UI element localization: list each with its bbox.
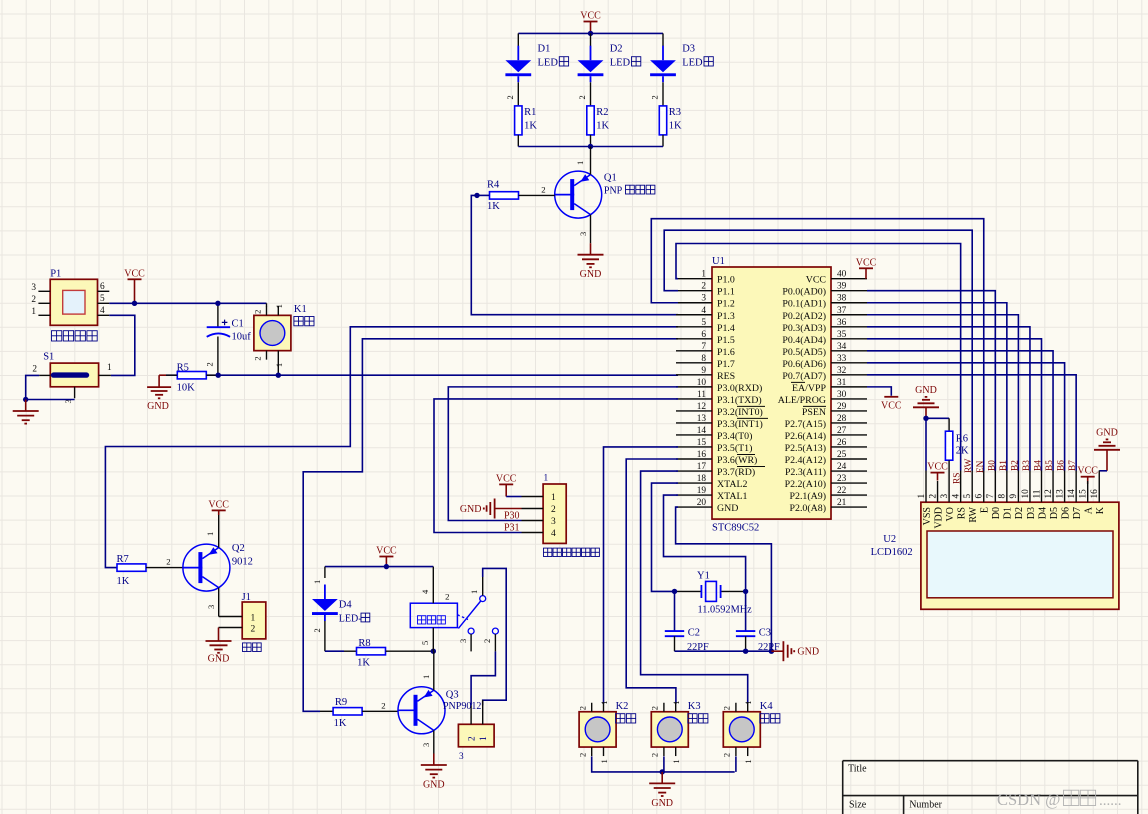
svg-text:2: 2 [32, 365, 37, 375]
net label P30 [504, 511, 520, 522]
svg-text:C1: C1 [232, 319, 244, 330]
power VCC (relay) [376, 546, 397, 567]
svg-text:2: 2 [701, 282, 706, 292]
net label B2 [1010, 460, 1020, 471]
net label RW [964, 458, 974, 473]
svg-text:VCC: VCC [1077, 466, 1098, 477]
svg-text:P3.6(WR): P3.6(WR) [717, 455, 757, 466]
svg-text:LED-: LED- [339, 613, 362, 624]
svg-text:R8: R8 [358, 638, 370, 649]
svg-text:VCC: VCC [376, 546, 397, 557]
wire C2/C3 bottoms [675, 650, 772, 652]
svg-text:VSS: VSS [922, 507, 933, 525]
wire VSS node down [925, 418, 927, 470]
svg-text:1: 1 [575, 161, 585, 165]
wire P1 pin4 to S1 pin1 [109, 315, 135, 375]
svg-text:P0.2(AD2): P0.2(AD2) [782, 311, 826, 322]
power VCC at LCD A [1077, 466, 1098, 484]
svg-text:9: 9 [1009, 494, 1019, 499]
svg-text:GND: GND [915, 385, 937, 396]
svg-text:2: 2 [577, 95, 587, 99]
svg-text:19: 19 [697, 486, 707, 496]
svg-text:2: 2 [505, 95, 515, 99]
svg-text:P1.2: P1.2 [717, 299, 735, 310]
svg-text:U2: U2 [883, 534, 896, 545]
svg-text:3: 3 [551, 517, 556, 527]
ground below Q3 [421, 754, 447, 791]
LED D4 red [312, 567, 370, 652]
svg-text:P3.0(RXD): P3.0(RXD) [717, 383, 762, 394]
junction C1 top [215, 301, 220, 306]
wire crystal right to C3 [745, 591, 747, 631]
svg-text:LED: LED [682, 58, 703, 69]
wire U1 pin11 to P31 [434, 399, 678, 533]
crystal Y1 11.0592MHz [675, 571, 753, 616]
svg-text:D0: D0 [991, 507, 1002, 519]
svg-text:10: 10 [697, 378, 707, 388]
svg-text:1: 1 [701, 270, 706, 280]
svg-text:2: 2 [578, 753, 588, 757]
svg-text:12: 12 [1044, 489, 1054, 499]
svg-text:B7: B7 [1068, 460, 1078, 471]
svg-text:EA/VPP: EA/VPP [792, 383, 827, 394]
svg-text:1K: 1K [117, 576, 130, 587]
svg-text:10K: 10K [177, 382, 196, 393]
svg-text:1: 1 [421, 675, 431, 679]
svg-text:R4: R4 [487, 180, 500, 191]
svg-text:D7: D7 [1072, 507, 1083, 519]
svg-text:B3: B3 [1022, 460, 1032, 471]
wire U1 pin3 to LCD EN [651, 219, 983, 471]
svg-text:C3: C3 [759, 628, 771, 639]
button K3 [650, 701, 708, 764]
svg-text:1: 1 [107, 363, 112, 373]
svg-text:K3: K3 [688, 701, 701, 712]
ground below Q1 [578, 243, 604, 280]
resistor R1 1K [515, 106, 538, 147]
wire U1 P0.4 to LCD D4 [867, 339, 1042, 471]
power VCC (voice module) [496, 473, 522, 496]
wire U1 P0.5 to LCD D5 [867, 351, 1053, 471]
svg-text:36: 36 [837, 318, 847, 328]
svg-text:VCC: VCC [881, 401, 902, 412]
LED D1 [505, 33, 569, 106]
capacitor C2 22PF [665, 628, 709, 654]
button K1 [252, 303, 314, 375]
power VCC at U1 pin31 (inverted) [881, 397, 902, 412]
svg-text:20: 20 [697, 498, 707, 508]
junction crystal right [743, 589, 748, 594]
svg-text:GND: GND [717, 503, 738, 514]
connector P1 (self-lock switch) [31, 269, 109, 342]
wire K3 bottom [663, 756, 665, 772]
svg-text:P1.3: P1.3 [717, 311, 735, 322]
svg-text:1: 1 [479, 736, 489, 741]
wire U1 pin19 (XTAL1) to crystal [664, 495, 746, 591]
svg-text:R7: R7 [117, 554, 129, 565]
svg-text:2: 2 [251, 625, 256, 635]
wire VSS node to R6 [926, 417, 949, 419]
svg-text:2: 2 [650, 706, 660, 710]
svg-text:35: 35 [837, 330, 847, 340]
svg-text:6: 6 [100, 282, 105, 292]
svg-text:18: 18 [697, 474, 707, 484]
svg-text:GND: GND [208, 654, 230, 665]
wire relay contact 2 to connector pin2 [471, 651, 495, 705]
wire relay contact 1 to connector pin1 [483, 568, 507, 705]
svg-text:GND: GND [147, 401, 169, 412]
ground below buttons [649, 772, 675, 809]
svg-text:4: 4 [551, 529, 556, 539]
svg-text:16: 16 [1090, 489, 1100, 499]
svg-text:R6: R6 [956, 434, 968, 445]
svg-text:4: 4 [701, 306, 706, 316]
svg-text:21: 21 [837, 498, 847, 508]
ground above LCD K (inverted) [1094, 427, 1120, 470]
svg-text:8: 8 [998, 494, 1008, 499]
svg-text:24: 24 [837, 462, 847, 472]
svg-text:14: 14 [697, 426, 707, 436]
svg-text:1: 1 [743, 759, 753, 763]
svg-text:3: 3 [578, 232, 588, 236]
svg-text:P1.1: P1.1 [717, 287, 735, 298]
IC U1 STC89C52 [676, 256, 867, 534]
svg-text:P2.1(A9): P2.1(A9) [790, 491, 826, 502]
svg-text:2: 2 [312, 628, 322, 632]
svg-text:P2.5(A13): P2.5(A13) [785, 443, 826, 454]
svg-text:B0: B0 [987, 460, 997, 471]
svg-text:GND: GND [651, 798, 673, 809]
svg-text:2: 2 [205, 362, 215, 366]
svg-text:ALE/PROG: ALE/PROG [778, 395, 826, 406]
svg-text:9: 9 [701, 366, 706, 376]
svg-text:2: 2 [650, 95, 660, 99]
ground at R5 [147, 375, 171, 412]
svg-text:1: 1 [671, 701, 681, 705]
svg-text:J1: J1 [242, 592, 251, 603]
junction crystal left [672, 589, 677, 594]
svg-text:A: A [1084, 506, 1095, 514]
wire U1 pin10 to P30 [448, 387, 678, 521]
capacitor C1 10uf [205, 303, 252, 375]
ground at J1 pin2 [206, 628, 232, 665]
ground above LCD VSS (inverted) [913, 385, 939, 419]
wire U1 P0.3 to LCD D3 [867, 327, 1030, 471]
svg-text:8: 8 [701, 354, 706, 364]
net label P31 [504, 523, 520, 534]
svg-text:15: 15 [1079, 489, 1089, 499]
svg-text:B5: B5 [1045, 460, 1055, 471]
svg-text:6: 6 [701, 330, 706, 340]
wire U1 pin5 to R7 [105, 327, 678, 568]
ground below S1 [13, 400, 39, 424]
svg-text:29: 29 [837, 402, 847, 412]
svg-text:P3.1(TXD): P3.1(TXD) [717, 395, 762, 406]
svg-text:7: 7 [986, 494, 996, 499]
svg-text:D6: D6 [1060, 507, 1071, 519]
svg-text:15: 15 [697, 438, 707, 448]
svg-text:K2: K2 [616, 701, 629, 712]
svg-text:10: 10 [1021, 489, 1031, 499]
svg-text:5: 5 [420, 641, 430, 645]
svg-text:3: 3 [458, 639, 468, 643]
svg-text:Q1: Q1 [604, 173, 617, 184]
svg-text:11.0592MHz: 11.0592MHz [698, 605, 753, 616]
svg-text:2: 2 [928, 494, 938, 499]
svg-text:VCC: VCC [580, 11, 601, 22]
svg-text:P0.7(AD7): P0.7(AD7) [782, 371, 826, 382]
wire U1 P0.0 to LCD D0 [867, 291, 995, 471]
svg-text:1: 1 [251, 614, 256, 624]
LCD U2 LCD1602 [871, 471, 1119, 610]
svg-text:12: 12 [697, 402, 707, 412]
svg-text:1K: 1K [596, 121, 609, 132]
svg-text:1: 1 [544, 474, 549, 484]
svg-text:XTAL1: XTAL1 [717, 491, 748, 502]
svg-text:23: 23 [837, 474, 847, 484]
svg-text:P1.0: P1.0 [717, 275, 735, 286]
net label EN [976, 460, 986, 473]
connector J1 (fan) [219, 592, 266, 652]
svg-text:GND: GND [460, 504, 482, 515]
svg-text:P2.2(A10): P2.2(A10) [785, 479, 826, 490]
svg-text:2: 2 [722, 753, 732, 757]
ground (voice module, rotated) [460, 499, 522, 519]
svg-text:10uf: 10uf [232, 332, 252, 343]
svg-text:C2: C2 [688, 628, 700, 639]
svg-text:1: 1 [917, 494, 927, 499]
svg-text:GND: GND [1096, 427, 1118, 438]
svg-text:D1: D1 [538, 44, 551, 55]
svg-text:P2.0(A8): P2.0(A8) [790, 503, 826, 514]
wire U1 pin16 to K3 [626, 459, 678, 704]
svg-text:5: 5 [963, 494, 973, 499]
svg-text:R9: R9 [335, 697, 347, 708]
switch S1 [32, 352, 112, 404]
svg-text:LED: LED [610, 58, 631, 69]
power VCC at LCD VDD [927, 462, 948, 481]
net label B0 [987, 460, 997, 471]
svg-text:1K: 1K [357, 658, 370, 669]
svg-text:P31: P31 [504, 523, 520, 534]
svg-text:2: 2 [578, 706, 588, 710]
svg-text:K4: K4 [760, 701, 774, 712]
relay (coil) [410, 567, 468, 652]
svg-text:VCC: VCC [806, 275, 827, 286]
wire U1 P0.7 to LCD D7 [867, 375, 1076, 471]
svg-text:Q2: Q2 [232, 543, 245, 554]
transistor Q1 PNP [555, 147, 655, 244]
wire U1 pin15 to K2 [604, 447, 679, 704]
svg-text:D1: D1 [1003, 507, 1014, 519]
svg-text:5: 5 [701, 318, 706, 328]
svg-text:1K: 1K [487, 201, 500, 212]
svg-text:9012: 9012 [232, 557, 253, 568]
svg-text:3: 3 [421, 743, 431, 747]
junction VCC rail [384, 564, 389, 569]
svg-text:D2: D2 [1014, 507, 1025, 519]
svg-text:2: 2 [381, 700, 385, 710]
svg-text:1: 1 [312, 580, 322, 584]
wire D4 to R8 [325, 650, 344, 652]
junction at R4 input [474, 193, 479, 198]
svg-text:U1: U1 [712, 256, 725, 267]
svg-text:B1: B1 [999, 460, 1009, 471]
svg-text:LED: LED [538, 58, 559, 69]
connector U3 voice recognition module [522, 474, 600, 557]
svg-text:40: 40 [837, 270, 847, 280]
svg-text:2: 2 [166, 557, 170, 567]
power VCC above Q2 [208, 499, 229, 515]
resistor R3 1K [659, 106, 682, 147]
wire VCC to LED tops [518, 32, 663, 34]
svg-text:1: 1 [31, 307, 36, 317]
junction C3 bottom [743, 649, 748, 654]
svg-text:R5: R5 [177, 363, 189, 374]
svg-text:VO: VO [945, 507, 956, 521]
svg-text:D4: D4 [339, 599, 353, 610]
svg-text:R1: R1 [524, 107, 536, 118]
svg-text:4: 4 [100, 306, 105, 316]
svg-text:S1: S1 [43, 352, 54, 363]
wire K2 bottom [592, 756, 735, 772]
wire U1 pin17 to K4 [641, 471, 748, 704]
svg-text:2: 2 [468, 736, 478, 741]
svg-text:1: 1 [599, 701, 609, 705]
svg-text:R3: R3 [669, 107, 681, 118]
wire U1 pin31 to VCC [867, 387, 891, 396]
svg-text:1: 1 [551, 493, 556, 503]
svg-text:2: 2 [252, 310, 262, 314]
LED D2 [577, 33, 641, 106]
svg-text:25: 25 [837, 450, 847, 460]
resistor R8 1K [344, 638, 433, 669]
net label B1 [999, 460, 1009, 471]
svg-text:Number: Number [909, 800, 942, 811]
junction S1 ground [23, 397, 28, 402]
svg-text:VCC: VCC [208, 499, 229, 510]
svg-text:Size: Size [849, 800, 867, 811]
button K2 [578, 701, 636, 764]
svg-text:P3.3(INT1): P3.3(INT1) [717, 419, 763, 430]
svg-text:P0.6(AD6): P0.6(AD6) [782, 359, 826, 370]
wire VCC rail D4/relay [325, 566, 433, 568]
svg-text:GND: GND [580, 269, 602, 280]
svg-text:P1.7: P1.7 [717, 359, 735, 370]
wire U1 pin1 to LCD RS [676, 244, 961, 471]
svg-text:P0.5(AD5): P0.5(AD5) [782, 347, 826, 358]
svg-text:P30: P30 [504, 511, 520, 522]
svg-text:......: ...... [1099, 793, 1122, 809]
svg-text:E: E [980, 507, 991, 513]
svg-text:2: 2 [252, 356, 262, 360]
svg-text:P2.7(A15): P2.7(A15) [785, 419, 826, 430]
svg-text:Q3: Q3 [446, 689, 459, 700]
junction at Q1 collector node [588, 144, 593, 149]
svg-text:D5: D5 [1049, 507, 1060, 519]
svg-text:P3.4(T0): P3.4(T0) [717, 431, 752, 442]
wire U1 P0.1 to LCD D1 [867, 303, 1007, 471]
svg-text:14: 14 [1067, 489, 1077, 499]
svg-text:B4: B4 [1034, 460, 1044, 471]
wire U1 P0.2 to LCD D2 [867, 315, 1018, 471]
power VCC (P1 area) [124, 268, 145, 303]
svg-text:P0.1(AD1): P0.1(AD1) [782, 299, 826, 310]
svg-text:5: 5 [100, 294, 105, 304]
svg-text:16: 16 [697, 450, 707, 460]
svg-text:R2: R2 [596, 107, 608, 118]
svg-text:3: 3 [31, 283, 36, 293]
junction VCC [132, 301, 137, 306]
button K4 [722, 701, 780, 764]
svg-text:K: K [1095, 506, 1106, 514]
svg-text:P2.3(A11): P2.3(A11) [785, 467, 826, 478]
svg-text:1: 1 [274, 304, 284, 308]
transistor Q3 PNP9012 [398, 651, 481, 753]
resistor R9 1K [320, 697, 398, 729]
wire K4 bottom [735, 756, 737, 772]
svg-text:VCC: VCC [124, 268, 145, 279]
svg-text:P0.3(AD3): P0.3(AD3) [782, 323, 826, 334]
net label B5 [1045, 460, 1055, 471]
wire P1 pin5 to VCC/C1/K1 [109, 302, 266, 304]
svg-text:D2: D2 [610, 44, 623, 55]
connector (relay output) [458, 700, 494, 762]
svg-text:P2.6(A14): P2.6(A14) [785, 431, 826, 442]
svg-text:1K: 1K [334, 718, 347, 729]
svg-text:RES: RES [717, 371, 735, 382]
resistor R4 1K [477, 180, 555, 213]
svg-text:P1: P1 [50, 269, 61, 280]
svg-text:PNP9012: PNP9012 [443, 701, 481, 712]
svg-text:PSEN: PSEN [802, 407, 826, 418]
svg-text:2: 2 [445, 592, 449, 602]
svg-text:XTAL2: XTAL2 [717, 479, 748, 490]
svg-text:1: 1 [743, 701, 753, 705]
svg-text:32: 32 [837, 366, 847, 376]
LED D3 [650, 33, 714, 106]
svg-text:11: 11 [697, 390, 706, 400]
wire R1/R2/R3 bottoms to Q1 collector [518, 146, 663, 148]
wire U1 P0.6 to LCD D6 [867, 363, 1065, 471]
svg-text:2: 2 [551, 505, 556, 515]
svg-text:VCC: VCC [856, 257, 877, 268]
svg-text:33: 33 [837, 354, 847, 364]
junction R8 / relay pin5 / Q3 collector [431, 649, 436, 654]
wire U1 pin20 (GND) to ground [676, 507, 772, 651]
svg-text:GND: GND [797, 647, 819, 658]
svg-text:1: 1 [599, 759, 609, 763]
svg-text:38: 38 [837, 294, 847, 304]
net label B7 [1068, 460, 1078, 471]
svg-text:VCC: VCC [927, 462, 948, 473]
junction C1 bottom [216, 373, 221, 378]
svg-text:28: 28 [837, 414, 847, 424]
svg-text:P1.5: P1.5 [717, 335, 735, 346]
svg-text:2: 2 [541, 185, 545, 195]
svg-text:13: 13 [1055, 489, 1065, 499]
svg-text:17: 17 [697, 462, 707, 472]
svg-text:B6: B6 [1057, 460, 1067, 471]
svg-text:VCC: VCC [496, 473, 517, 484]
svg-text:30: 30 [837, 390, 847, 400]
junction at VCC/D2 [588, 31, 593, 36]
svg-text:3: 3 [206, 605, 216, 609]
svg-text:4: 4 [951, 494, 961, 499]
wire S1 pin2 to ground [26, 375, 40, 399]
svg-text:PNP: PNP [604, 186, 623, 197]
wire crystal left to C2 [674, 591, 676, 631]
